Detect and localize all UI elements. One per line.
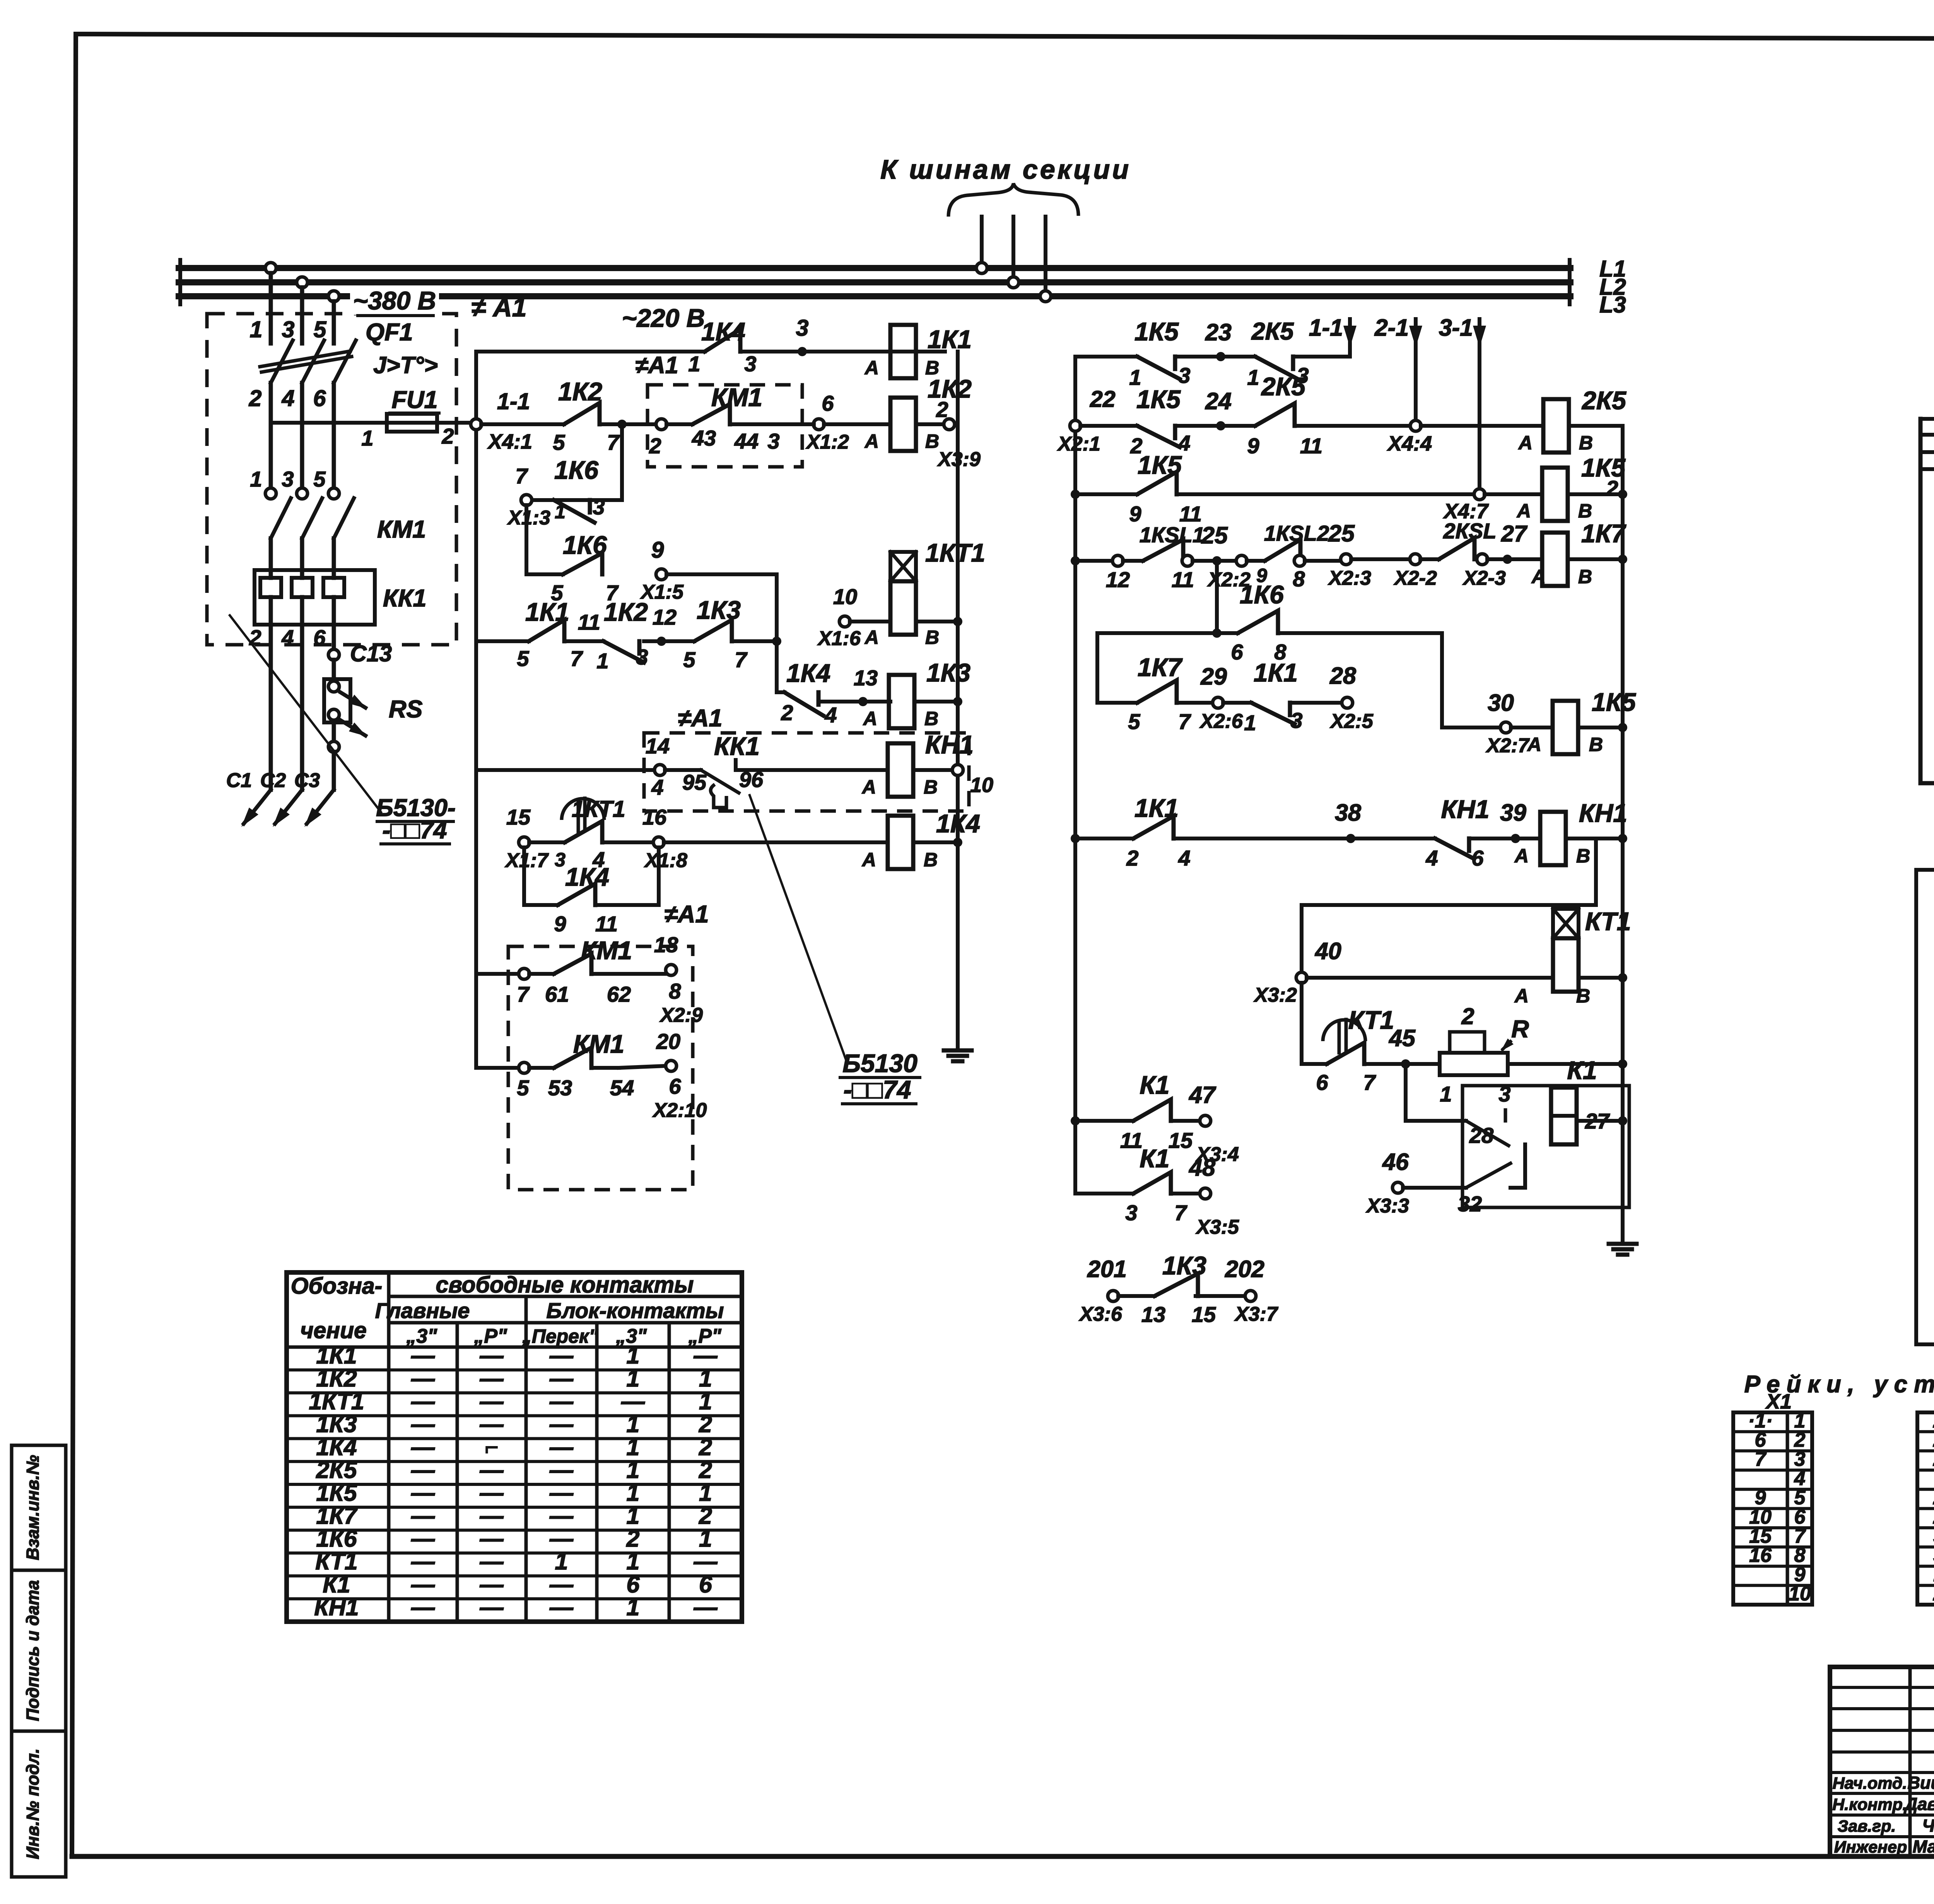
svg-text:1: 1 <box>596 649 608 673</box>
node 24 <box>1175 388 1255 430</box>
svg-text:1КТ1: 1КТ1 <box>925 538 985 567</box>
svg-text:6: 6 <box>1471 846 1484 870</box>
svg-text:28: 28 <box>1329 663 1356 689</box>
svg-text:В: В <box>1579 432 1593 454</box>
svg-text:X4:1: X4:1 <box>487 430 532 453</box>
dashed enclosure A1 power block <box>207 314 456 645</box>
svg-text:6: 6 <box>699 1571 712 1597</box>
terminal circle after 1KSL1 <box>1182 555 1193 566</box>
terminal 22 X2:1 <box>1057 386 1116 455</box>
svg-text:≠ А1: ≠ А1 <box>471 293 526 322</box>
terminal circle rowH2 <box>519 1062 530 1073</box>
contact K1 row11 <box>1075 1071 1193 1153</box>
svg-text:3: 3 <box>636 645 648 669</box>
contact KT1 delayed l2 <box>1316 1006 1394 1095</box>
label pins 1 3 row1 <box>688 352 756 376</box>
node 9 X1:5 <box>640 537 684 603</box>
terminal 201 X3:6 <box>1078 1256 1127 1325</box>
cable C1 arrow <box>241 790 271 827</box>
svg-text:7: 7 <box>1363 1070 1376 1095</box>
coil KH1 <box>1514 799 1627 867</box>
svg-text:X2:10: X2:10 <box>652 1099 707 1122</box>
contact 1K5 NC l2row1 <box>1129 317 1190 389</box>
svg-text:—: — <box>411 1388 435 1414</box>
wire KM1 pole1 lower <box>269 538 273 570</box>
wire RS lower <box>332 722 336 742</box>
svg-text:≠А1: ≠А1 <box>678 705 722 732</box>
svg-text:1КТ1: 1КТ1 <box>572 796 625 822</box>
branch KH1 down to KT1 row <box>1302 838 1596 973</box>
cable C3 arrow <box>304 790 334 827</box>
svg-text:1: 1 <box>627 1365 640 1392</box>
svg-text:1К2: 1К2 <box>558 377 602 406</box>
svg-text:—: — <box>411 1480 435 1506</box>
dashed box A1 kk1 <box>644 733 969 811</box>
brace to bus section <box>948 183 1078 217</box>
svg-text:53: 53 <box>548 1076 572 1100</box>
svg-text:5: 5 <box>1128 709 1140 734</box>
svg-text:—: — <box>480 1480 504 1506</box>
terminal X4:4 <box>1295 420 1432 455</box>
svg-text:С1: С1 <box>226 769 252 792</box>
terminal 10 rail row6 <box>913 765 993 797</box>
terminal C13 circle <box>328 649 339 660</box>
svg-text:А: А <box>1514 985 1529 1007</box>
svg-text:X2:7: X2:7 <box>1485 734 1530 757</box>
svg-text:X4:4: X4:4 <box>1387 432 1432 455</box>
contact K1 28 <box>1466 1110 1509 1148</box>
svg-text:1К1: 1К1 <box>1134 794 1179 822</box>
terminal strip X1 <box>1733 1390 1812 1605</box>
l2row2 wire to coil <box>1421 424 1543 428</box>
branch wire down <box>526 505 563 574</box>
terminal 48 X3:5 <box>1171 1154 1239 1238</box>
terminal 47 X3:4 <box>1171 1082 1239 1166</box>
svg-text:6: 6 <box>669 1074 681 1098</box>
svg-text:1: 1 <box>699 1388 712 1414</box>
svg-text:В: В <box>1578 566 1592 587</box>
label B5130-74 left <box>376 794 456 844</box>
svg-text:11: 11 <box>1300 434 1322 458</box>
label QF1 pole numbers 1 3 5 <box>250 317 327 342</box>
svg-text:1: 1 <box>250 467 262 491</box>
svg-text:5: 5 <box>517 1076 529 1100</box>
svg-text:X1:7: X1:7 <box>504 849 549 872</box>
resistor R <box>1440 1004 1529 1106</box>
svg-text:1К5: 1К5 <box>316 1480 357 1506</box>
wire to X1:4 <box>1920 467 1934 471</box>
bus end ticks right <box>1568 260 1572 304</box>
bus tap wire 3 <box>1044 217 1047 296</box>
svg-text:2: 2 <box>699 1457 712 1483</box>
wire coil KT1 to rail <box>1579 973 1627 982</box>
ladder1 ground <box>956 1044 960 1050</box>
wire QF1 pole3 upper <box>332 301 336 343</box>
terminal X1:8 <box>602 805 687 872</box>
coil 1K5 <box>1516 453 1626 522</box>
l2row1 wire <box>1075 355 1137 359</box>
svg-text:В: В <box>924 849 938 871</box>
svg-text:202: 202 <box>1225 1256 1264 1282</box>
svg-text:1К3: 1К3 <box>926 658 970 687</box>
label pins 5 7 row2 <box>553 430 620 454</box>
coil 1K3 <box>863 658 970 729</box>
svg-text:1К1: 1К1 <box>928 325 972 353</box>
svg-text:4: 4 <box>1178 846 1190 870</box>
wire C1 pole lower <box>269 625 273 790</box>
leader line to B5130 label second <box>750 795 847 1063</box>
svg-text:А: А <box>1527 734 1541 755</box>
wire C2 pole lower <box>300 625 304 790</box>
svg-text:—: — <box>411 1457 435 1483</box>
contact K1 row12 <box>1125 1144 1187 1225</box>
svg-text:1К1: 1К1 <box>525 598 569 626</box>
svg-text:1К6: 1К6 <box>316 1525 357 1552</box>
svg-text:КМ1: КМ1 <box>581 936 632 965</box>
svg-text:—: — <box>549 1480 574 1506</box>
svg-text:КМ1: КМ1 <box>711 383 762 412</box>
terminal 25 X2:3 <box>1305 520 1371 589</box>
contact 1KT1 delayed <box>529 796 625 872</box>
wire QF1 pole3 lower <box>332 383 336 488</box>
svg-text:А: А <box>864 627 879 648</box>
svg-text:1КSL1: 1КSL1 <box>1140 523 1204 547</box>
bus L3 <box>179 293 1570 299</box>
svg-text:2К5: 2К5 <box>1261 372 1306 401</box>
svg-text:—: — <box>549 1342 574 1369</box>
svg-text:L3: L3 <box>1599 292 1626 318</box>
svg-text:10: 10 <box>833 584 857 609</box>
svg-text:27: 27 <box>1501 521 1528 546</box>
svg-text:24: 24 <box>1205 388 1232 414</box>
terminal 202 X3:7 <box>1196 1256 1278 1325</box>
svg-text:11: 11 <box>1172 567 1194 592</box>
contact 1K6 l2 <box>1217 580 1286 664</box>
svg-text:X3:2: X3:2 <box>1253 984 1297 1006</box>
coil 1K5 second <box>1511 688 1636 755</box>
svg-text:1: 1 <box>627 1434 640 1460</box>
contact 1K6 NC branch <box>554 456 605 523</box>
svg-text:К1: К1 <box>1567 1056 1597 1084</box>
label FU1 <box>390 386 439 413</box>
contact 1K2 NC row4 <box>564 598 648 673</box>
svg-text:J>Т°>: J>Т°> <box>373 352 438 378</box>
svg-text:X3:7: X3:7 <box>1234 1303 1278 1325</box>
feed arrow 2-1 <box>1374 314 1422 421</box>
svg-text:свободные контакты: свободные контакты <box>436 1272 694 1298</box>
node X4:1 <box>471 389 532 453</box>
svg-text:95: 95 <box>682 770 707 794</box>
svg-text:X3:6: X3:6 <box>1078 1303 1122 1325</box>
svg-text:1К5: 1К5 <box>1138 451 1182 479</box>
svg-text:—: — <box>411 1411 435 1437</box>
svg-text:3: 3 <box>1290 708 1302 733</box>
wire coil 1K3 to rail <box>914 697 962 706</box>
svg-text:4: 4 <box>282 386 295 411</box>
coil 1K4 <box>861 809 980 871</box>
terminal 28 X2:5 <box>1290 663 1374 733</box>
relay 1KT1 coil with flag <box>864 538 985 648</box>
l2row11 node <box>1071 1116 1080 1125</box>
svg-text:28: 28 <box>1469 1123 1494 1148</box>
svg-text:—: — <box>621 1388 645 1414</box>
svg-text:2: 2 <box>699 1411 712 1437</box>
svg-text:Б5130: Б5130 <box>842 1049 917 1078</box>
row9 wire to rail <box>1508 1059 1627 1069</box>
svg-text:А: А <box>863 708 877 729</box>
svg-text:⌐: ⌐ <box>485 1434 499 1460</box>
svg-text:—: — <box>411 1548 435 1574</box>
svg-text:КМ1: КМ1 <box>573 1030 624 1058</box>
svg-text:30: 30 <box>1488 690 1514 716</box>
svg-text:1: 1 <box>627 1457 640 1483</box>
contact 1K1 NC l2row6 <box>1223 658 1303 735</box>
svg-text:1К5: 1К5 <box>1592 688 1636 716</box>
svg-text:43: 43 <box>692 426 716 450</box>
l2row3 node <box>1071 490 1080 499</box>
node 38 <box>1174 799 1435 843</box>
wire to X1:1 <box>1920 417 1934 421</box>
svg-text:3: 3 <box>796 315 809 341</box>
relay KT1 coil with flag <box>1514 907 1631 1007</box>
row5 wire left <box>1097 633 1217 703</box>
svg-text:2: 2 <box>1461 1004 1474 1029</box>
wire KM1 pole3 lower <box>332 538 336 570</box>
svg-text:А: А <box>861 849 876 871</box>
svg-text:1К6: 1К6 <box>1240 580 1284 609</box>
row2 wire <box>481 422 564 426</box>
svg-text:1К7: 1К7 <box>316 1503 358 1529</box>
svg-text:1: 1 <box>1247 365 1259 389</box>
svg-text:—: — <box>411 1503 435 1529</box>
svg-text:RS: RS <box>389 696 423 723</box>
contact KH1 NC <box>1425 795 1489 870</box>
svg-text:5: 5 <box>683 647 695 672</box>
svg-text:9: 9 <box>651 537 664 563</box>
node 3 row1 <box>796 315 809 356</box>
svg-text:8: 8 <box>669 979 681 1003</box>
label B5130-74 right <box>840 1049 920 1104</box>
label KM1 pole numbers 1 3 5 <box>250 467 326 491</box>
svg-text:X1:2: X1:2 <box>805 431 849 453</box>
coil 1K1 <box>864 325 972 379</box>
svg-text:—: — <box>480 1571 504 1597</box>
svg-text:1К2: 1К2 <box>316 1365 357 1392</box>
svg-text:62: 62 <box>607 982 631 1006</box>
svg-text:—: — <box>411 1571 435 1597</box>
svg-text:7: 7 <box>515 464 528 488</box>
l2row1 wire right <box>1293 355 1350 359</box>
svg-text:1К2: 1К2 <box>928 374 972 403</box>
svg-text:1К7: 1К7 <box>1138 653 1183 681</box>
svg-text:2: 2 <box>249 625 261 650</box>
branch 45 down into K1 <box>1406 1064 1466 1121</box>
svg-text:1К5: 1К5 <box>1581 453 1626 482</box>
contact 1KSL1 <box>1106 523 1204 592</box>
terminal X1:6 <box>817 584 861 650</box>
svg-text:18: 18 <box>654 932 678 957</box>
wire C3 pole upper segment <box>332 625 336 650</box>
output arrow 50 <box>1916 1312 1934 1350</box>
svg-text:2: 2 <box>699 1434 712 1460</box>
coil 2K5 <box>1518 386 1626 454</box>
svg-text:4: 4 <box>651 775 663 799</box>
svg-text:4: 4 <box>281 625 294 650</box>
svg-text:X2:9: X2:9 <box>659 1004 703 1026</box>
contacts table <box>287 1272 742 1622</box>
wire coil KH1 to rail <box>1566 834 1627 843</box>
terminal X1:7 <box>504 805 549 872</box>
wire coil 1K7 to rail <box>1568 555 1627 564</box>
svg-text:≠А1: ≠А1 <box>635 352 678 378</box>
svg-text:R: R <box>1511 1016 1529 1043</box>
svg-text:1К5: 1К5 <box>1134 317 1179 346</box>
svg-text:Зав.гр.: Зав.гр. <box>1838 1817 1896 1836</box>
bus tap wire 1 <box>980 217 984 268</box>
contact 1K4 NC row5 <box>781 659 837 727</box>
wire C13 to RS <box>332 660 336 681</box>
svg-text:7: 7 <box>1174 1200 1187 1225</box>
svg-text:1К6: 1К6 <box>563 531 607 559</box>
node 39 <box>1472 799 1540 843</box>
svg-text:13: 13 <box>854 666 878 690</box>
terminal 2 X3:9 <box>916 397 981 471</box>
terminal 18 X2:9 <box>619 932 703 1026</box>
row1 wire to coil <box>740 350 945 353</box>
svg-text:16: 16 <box>1749 1544 1772 1567</box>
svg-text:1: 1 <box>555 1548 568 1574</box>
svg-text:1: 1 <box>627 1594 640 1620</box>
svg-text:В: В <box>924 708 938 729</box>
svg-text:15: 15 <box>1169 1128 1193 1153</box>
svg-text:25: 25 <box>1201 522 1228 548</box>
svg-text:40: 40 <box>1314 938 1341 964</box>
svg-text:А: А <box>864 430 879 452</box>
bus 2KSL left vertical <box>1920 419 1934 783</box>
svg-text:Нач.отд.: Нач.отд. <box>1833 1774 1907 1793</box>
svg-text:—: — <box>411 1594 435 1620</box>
svg-text:Магулария: Магулария <box>1913 1837 1934 1856</box>
svg-text:46: 46 <box>1382 1149 1409 1175</box>
svg-text:1: 1 <box>627 1411 640 1437</box>
contact KK1 95-96 <box>665 732 764 808</box>
svg-text:3: 3 <box>1125 1200 1137 1225</box>
svg-text:Взам.инв.№: Взам.инв.№ <box>23 1455 43 1560</box>
svg-text:—: — <box>549 1434 574 1460</box>
thermal relay KK1 heaters <box>260 570 344 625</box>
svg-text:—: — <box>480 1411 504 1437</box>
svg-text:3: 3 <box>744 352 756 376</box>
svg-text:КН1: КН1 <box>1579 799 1627 827</box>
bus L1 <box>179 265 1570 271</box>
terminal circle rowH1 <box>519 968 530 979</box>
wire to X1:3 <box>1920 450 1934 454</box>
svg-text:—: — <box>411 1342 435 1369</box>
label fuse pins 1 2 <box>361 424 454 450</box>
svg-text:3: 3 <box>593 495 605 519</box>
terminal strip X2 <box>1917 1390 1934 1605</box>
row8 wire <box>1307 976 1553 980</box>
branch wire from node5 <box>531 424 622 500</box>
svg-text:—: — <box>480 1457 504 1483</box>
svg-text:10: 10 <box>1789 1583 1811 1605</box>
svg-text:КН1: КН1 <box>1441 795 1490 823</box>
svg-text:1К4: 1К4 <box>701 317 745 346</box>
svg-text:5: 5 <box>553 430 565 454</box>
contactor KM1 fixed circles <box>265 488 339 499</box>
node 13 row5 <box>818 666 890 706</box>
svg-text:КТ1: КТ1 <box>1585 907 1631 936</box>
row1 wire left <box>476 350 705 353</box>
fuse FU1 <box>387 414 473 432</box>
contact 2KSL <box>1420 519 1497 559</box>
svg-text:2: 2 <box>441 424 454 448</box>
svg-text:X1:6: X1:6 <box>817 627 861 650</box>
label ~380 В <box>350 286 439 316</box>
feed arrow 1-1 <box>1309 314 1357 357</box>
l2row12 corner <box>1075 1121 1133 1194</box>
svg-text:~380 В: ~380 В <box>353 286 436 315</box>
svg-text:1К5: 1К5 <box>1136 385 1181 413</box>
svg-text:5: 5 <box>314 317 327 342</box>
svg-text:X1:8: X1:8 <box>644 849 687 872</box>
coil 1K7 <box>1531 519 1626 587</box>
svg-text:В: В <box>924 776 938 798</box>
coil KH1 row6 <box>861 730 974 798</box>
contact 1K7 l2row6 <box>1097 653 1191 734</box>
svg-text:К1: К1 <box>1140 1144 1169 1173</box>
svg-text:X3:3: X3:3 <box>1365 1195 1409 1217</box>
contact KM1 43-44 <box>666 404 758 424</box>
svg-text:2К5: 2К5 <box>1251 318 1294 345</box>
svg-text:25: 25 <box>1328 520 1355 546</box>
svg-text:КН1: КН1 <box>925 730 974 759</box>
svg-text:Н.контр.: Н.контр. <box>1832 1795 1907 1814</box>
svg-text:К1: К1 <box>1140 1071 1169 1099</box>
row6 wire to coil <box>736 768 888 772</box>
breaker QF1 blades <box>260 340 356 383</box>
svg-text:1: 1 <box>627 1503 640 1529</box>
svg-text:В: В <box>1576 845 1590 867</box>
dashed box KM1 aux lower <box>508 946 693 1190</box>
svg-text:1: 1 <box>699 1525 712 1552</box>
relay K1 box <box>1462 1086 1629 1207</box>
bus end ticks left <box>178 260 182 304</box>
terminal circle 43 <box>656 419 667 430</box>
wire 1KSL pin1 to arrow50 <box>1916 870 1934 1344</box>
svg-text:2: 2 <box>249 386 262 411</box>
node on row5 <box>1212 628 1222 638</box>
wire 1KT1 to rail <box>916 617 962 626</box>
ladder1 left rail <box>474 352 478 424</box>
ladder2 ground <box>1621 1238 1625 1244</box>
wire QF1 pole1 upper <box>269 273 273 343</box>
svg-text:2: 2 <box>1606 476 1618 500</box>
svg-text:Подпись и дата: Подпись и дата <box>23 1580 43 1721</box>
svg-text:11: 11 <box>578 610 600 634</box>
svg-text:—: — <box>549 1594 574 1620</box>
wire QF1 pole2 lower <box>300 383 304 488</box>
svg-text:7: 7 <box>517 982 530 1006</box>
svg-text:А: А <box>864 357 879 379</box>
svg-text:Инв.№ подл.: Инв.№ подл. <box>23 1749 43 1860</box>
svg-text:—: — <box>480 1525 504 1552</box>
svg-text:—: — <box>694 1594 718 1620</box>
wire coil 2K5 to rail <box>1569 424 1623 428</box>
svg-text:—: — <box>411 1525 435 1552</box>
terminal 30 X2:7 <box>1442 690 1530 757</box>
thermal relay KK1 box <box>255 570 375 625</box>
